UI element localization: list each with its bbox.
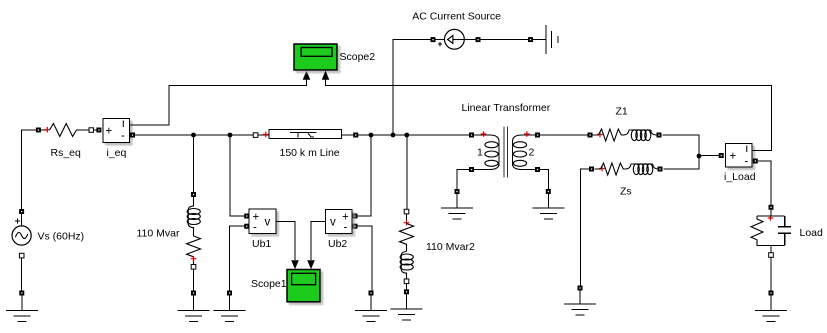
svg-text:Scope1: Scope1: [251, 278, 287, 290]
junction bus/Ub2: [369, 133, 374, 138]
load block (parallel RC): [751, 205, 791, 257]
ground G5 (rotated, right of AC source): [546, 25, 558, 54]
wire: bus down to 110 Mvar2: [406, 135, 408, 209]
svg-text:150 k m Line: 150 k m Line: [280, 147, 340, 159]
150 km Line block: [253, 130, 358, 139]
svg-text:v: v: [265, 217, 271, 229]
ground G2 under 110 Mvar: [178, 291, 210, 322]
svg-text:110 Mvar2: 110 Mvar2: [426, 241, 475, 253]
ground G3 under Ub1: [214, 291, 246, 322]
red plus winding 2: [524, 131, 530, 137]
resistor Rs_eq: [36, 124, 97, 137]
svg-text:1: 1: [477, 146, 483, 158]
winding 1 loops: [485, 142, 498, 148]
svg-text:-: -: [745, 156, 749, 168]
winding 2 lead bottom: [513, 164, 538, 170]
wire from Vs top up and right to Rs_eq: [22, 130, 47, 226]
ground G9 under Zs node: [564, 286, 596, 316]
svg-text:110 Mvar: 110 Mvar: [137, 227, 180, 239]
wire: bus up to AC Current Source: [393, 40, 431, 135]
port: i_eq minus output: [130, 133, 135, 138]
wire: 110 Mvar2 to ground: [406, 284, 408, 290]
port on wire to G5: [528, 37, 533, 42]
svg-text:Linear Transformer: Linear Transformer: [462, 102, 551, 114]
transformer: Linear Transformer: [469, 127, 540, 178]
ground G1 under Vs: [6, 291, 38, 322]
arrowhead into Scope1 right: [307, 260, 315, 269]
winding 2 lead top: [513, 135, 538, 141]
wire: Z1 output to i_Load junction: [663, 135, 700, 156]
wire: transformer to Z1: [540, 134, 588, 136]
junction bus/Ub1: [228, 133, 233, 138]
wire: bus down to Ub2 plus input: [357, 135, 371, 216]
svg-text:i: i: [122, 118, 125, 130]
current source AC Current Source: [431, 29, 481, 49]
wire: Vs bottom to ground: [21, 258, 23, 291]
wire: Ub1 v output to Scope1 left input: [276, 222, 295, 261]
winding 1 lead bottom: [474, 164, 499, 170]
ground G10 under Load: [755, 291, 787, 322]
svg-text:Zs: Zs: [620, 186, 632, 198]
svg-text:Scope2: Scope2: [340, 51, 376, 63]
block Ub2 (voltage measurement): [326, 210, 358, 234]
ground G7: [441, 189, 473, 219]
svg-text:i_eq: i_eq: [107, 147, 127, 159]
svg-text:i_Load: i_Load: [724, 171, 756, 183]
arrowhead into Scope1 left: [291, 260, 299, 269]
winding 2 loops: [513, 142, 526, 148]
svg-text:-: -: [121, 130, 125, 142]
ground G4 under Ub2: [355, 291, 387, 322]
red plus winding 1: [481, 131, 487, 137]
svg-text:v: v: [330, 217, 336, 229]
winding 1 lead top: [474, 135, 499, 141]
wire: i_Load i-output to Scope2 right input: [326, 80, 772, 151]
svg-text:Rs_eq: Rs_eq: [51, 147, 82, 159]
wire: Ub2 v output to Scope1 right input: [311, 222, 325, 261]
block i_Load (current measurement): [719, 143, 758, 168]
ground G6 under 110 Mvar2: [391, 289, 423, 320]
wire: i_Load minus to Load: [758, 161, 771, 205]
svg-text:Vs (60Hz): Vs (60Hz): [38, 231, 85, 243]
block Ub1 (voltage measurement): [244, 209, 276, 234]
core: [504, 127, 508, 178]
svg-text:Load: Load: [800, 227, 824, 239]
transformer ports: [469, 133, 474, 138]
junction bus/110 Mvar: [191, 133, 196, 138]
junction at i_Load input: [697, 154, 702, 159]
svg-text:Z1: Z1: [616, 105, 628, 117]
voltage source Vs (60Hz): [12, 219, 31, 258]
wire: junction to i_Load: [699, 155, 719, 157]
svg-text:+: +: [106, 126, 113, 138]
wire: Zs input from ground node: [581, 169, 592, 286]
block i_eq (current measurement): [103, 118, 130, 143]
wire: bus down to 110 Mvar: [193, 135, 195, 192]
arrowhead into Scope2 right: [322, 71, 330, 80]
wire: i_eq i-output to Scope2 left input: [130, 80, 307, 126]
svg-text:-: -: [344, 222, 348, 234]
wire: Load to ground G10: [770, 257, 772, 290]
branch Z1 (series R-L): [588, 129, 662, 141]
svg-text:Ub1: Ub1: [252, 238, 271, 250]
wire: Ub2 minus to ground: [357, 226, 372, 290]
ground G8: [532, 189, 564, 219]
scope Scope1: [287, 270, 320, 302]
branch Zs (series R-L): [589, 163, 663, 175]
svg-text:i: i: [746, 143, 749, 155]
junction bus/110 Mvar2: [404, 133, 409, 138]
svg-text:Ub2: Ub2: [328, 238, 347, 250]
junction bus/AC source: [391, 133, 396, 138]
svg-text:+: +: [730, 151, 737, 163]
wire: Ub1 minus to ground: [230, 226, 245, 290]
wire: main bus: [133, 134, 470, 136]
svg-text:-: -: [253, 222, 257, 234]
wire: AC Current Source to ground G5: [481, 39, 547, 41]
port: Vs top terminal: [19, 209, 24, 214]
scope Scope2: [294, 44, 337, 70]
svg-text:AC Current Source: AC Current Source: [412, 11, 501, 23]
wire: transformer winding2 bottom to ground G8: [540, 170, 548, 190]
port: i_eq input: [96, 128, 101, 133]
svg-text:2: 2: [529, 146, 535, 158]
wire: bus down to Ub1 plus input: [230, 135, 245, 216]
shunt branch 110 Mvar (inductor + resistor): [187, 192, 201, 269]
wire: transformer winding1 bottom to ground G7: [457, 170, 469, 190]
wire: Zs output to i_Load junction: [664, 156, 700, 169]
wire: 110 Mvar to ground: [193, 269, 195, 291]
shunt branch 110 Mvar2 (resistor + inductor): [400, 209, 414, 283]
arrowhead into Scope2 left: [303, 71, 311, 80]
